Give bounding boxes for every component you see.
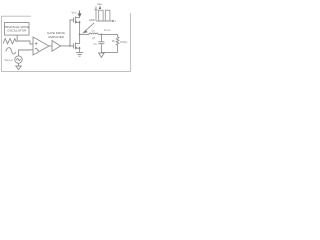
inductor L_O — [89, 33, 98, 34]
sine wave symbol (audio signal) — [6, 48, 16, 54]
node gate bus junction — [69, 45, 71, 47]
svg-text:OSCILLATOR: OSCILLATOR — [7, 29, 27, 33]
pulse 1 — [99, 10, 103, 21]
svg-text:AMPLIFIER: AMPLIFIER — [48, 35, 65, 39]
wire ground bus (cap and load bottoms) — [101, 51, 117, 53]
triangle wave symbol — [3, 39, 16, 44]
ground (audio source) — [16, 63, 21, 69]
ground (output filter) — [99, 53, 105, 57]
transistor Q1 (high-side MOSFET) — [74, 16, 81, 24]
oscillator block U1 TRIANGLE WAVE OSCILLATOR — [4, 23, 29, 36]
comparator - input mark — [35, 48, 39, 50]
svg-text:µH: µH — [92, 37, 95, 40]
plot axis up arrow — [99, 6, 101, 9]
svg-text:GND: GND — [89, 18, 95, 22]
arrow from PWM plot origin to switch node — [83, 23, 94, 33]
comparator U2 — [33, 37, 49, 55]
wire comparator to gate drive amplifier — [49, 45, 52, 47]
node output node — [101, 34, 103, 36]
svg-text:VO(t): VO(t) — [120, 40, 128, 44]
gate drive amplifier U3 — [52, 41, 61, 52]
resistor R_L — [116, 34, 119, 52]
PWM output waveform plot — [89, 2, 116, 23]
wire inductor to output node — [98, 33, 117, 35]
wire gate bus to Q2 gate — [70, 45, 74, 47]
wire gate driver output to gate bus — [61, 45, 71, 47]
capacitor C_OUT — [98, 34, 104, 52]
transistor Q2 (low-side MOSFET) — [74, 42, 81, 52]
wire audio source to comparator inverting input — [19, 50, 34, 56]
plot y-axis — [95, 6, 97, 21]
VDD supply arrow — [78, 11, 80, 17]
plot x-axis (time) — [96, 20, 113, 22]
pulse 2 — [105, 10, 110, 21]
wire gate bus to Q1 gate — [70, 20, 74, 46]
wire Q1 source to switch node to Q2 drain — [79, 24, 81, 43]
node switch node — [79, 34, 81, 36]
figure border frame — [1, 13, 130, 71]
comparator + input mark — [35, 42, 37, 44]
audio input source V_audio — [15, 56, 22, 63]
ground (Q2 source) — [76, 53, 83, 57]
wire oscillator output to comparator non-inverting input — [17, 35, 33, 44]
wire switch node to inductor — [80, 33, 89, 35]
